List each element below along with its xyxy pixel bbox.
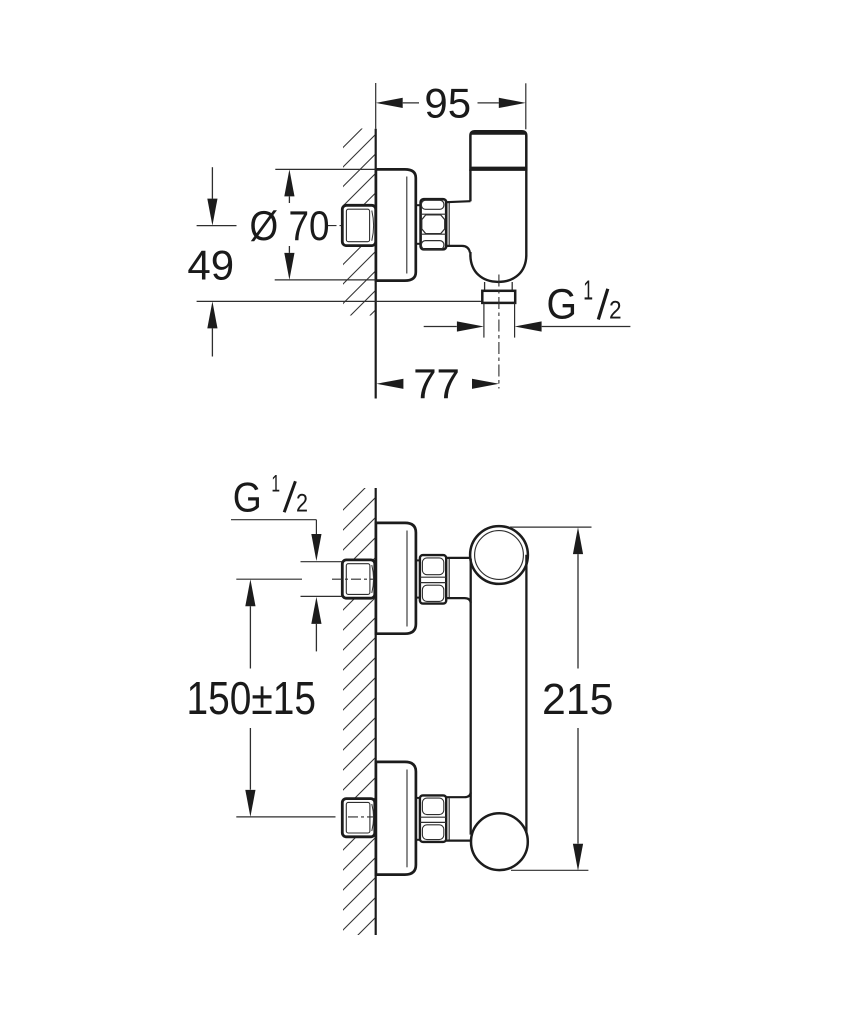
svg-text:49: 49 xyxy=(187,242,234,289)
svg-text:Ø 70: Ø 70 xyxy=(250,202,330,249)
svg-text:215: 215 xyxy=(542,675,613,724)
svg-text:2: 2 xyxy=(296,489,308,517)
svg-text:1: 1 xyxy=(271,470,280,497)
svg-text:150±15: 150±15 xyxy=(187,672,317,724)
svg-text:G: G xyxy=(547,280,578,328)
svg-text:G: G xyxy=(233,473,262,520)
svg-text:77: 77 xyxy=(413,360,460,407)
svg-text:1: 1 xyxy=(583,274,593,305)
svg-text:2: 2 xyxy=(609,296,622,324)
svg-text:95: 95 xyxy=(424,79,471,126)
